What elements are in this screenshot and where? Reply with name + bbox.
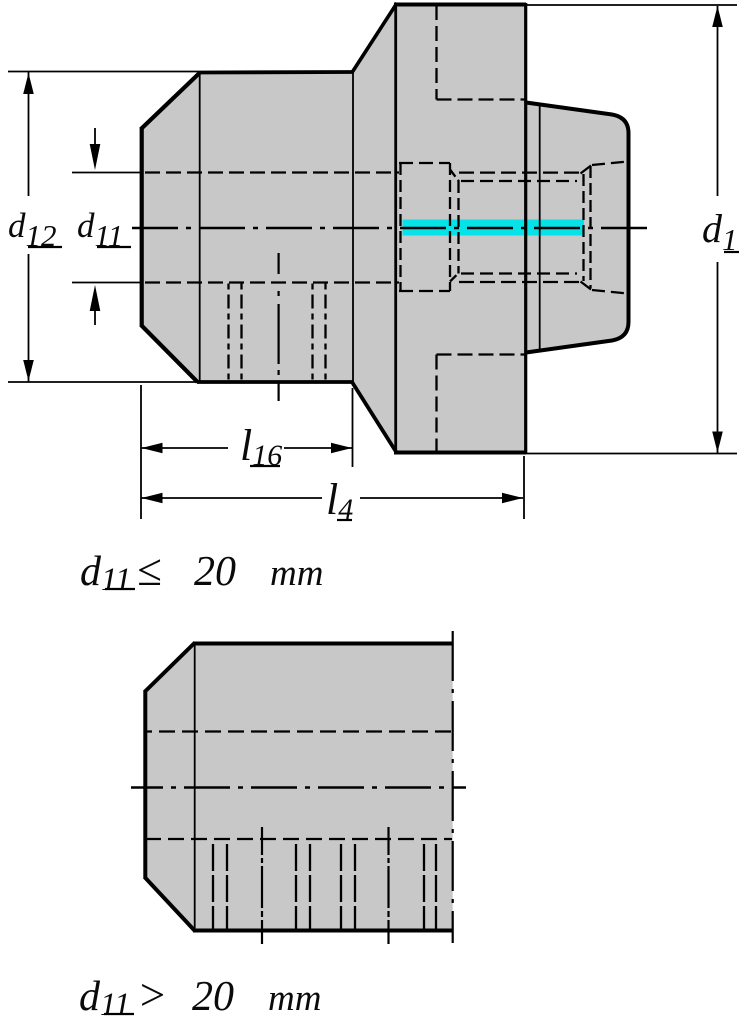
- hidden slot D left: [423, 844, 425, 930]
- hidden chamfer top left: [450, 170, 459, 182]
- adapter body lower view fill: [145, 643, 453, 931]
- outline flange bottom edge: [394, 451, 526, 455]
- slot centre mark vertical: [278, 253, 280, 401]
- hidden flange relief bottom vertical: [435, 355, 437, 453]
- hidden slot pair 1 left: [227, 284, 229, 382]
- cyan coolant bore highlight: [403, 220, 585, 236]
- dimension d11 extension bottom: [72, 282, 141, 284]
- dimension d12 extension top: [8, 71, 199, 73]
- arrow d12 top: [23, 73, 34, 94]
- hidden lead-in bottom: [592, 290, 628, 294]
- dimension d12 extension bottom: [8, 381, 197, 383]
- hidden chamfer bottom right: [581, 282, 592, 290]
- hidden slot pair 2 right: [324, 284, 326, 382]
- outline neck top edge: [199, 70, 353, 74]
- symmetry break line right: [452, 631, 454, 943]
- outline flange left edge: [394, 3, 397, 452]
- outline flange top edge: [394, 3, 526, 7]
- dimension l16 extension right: [352, 388, 354, 467]
- dimension d12 line upper: [28, 72, 30, 196]
- hidden thread end wall left: [582, 174, 584, 281]
- outline taper section top: [526, 103, 629, 353]
- outline neck bottom edge: [197, 380, 353, 384]
- hidden lead-in top: [592, 162, 628, 166]
- outline lower bottom edge: [193, 929, 453, 933]
- hidden flange relief top vertical: [435, 5, 437, 100]
- hidden slot C right: [354, 844, 356, 930]
- edge line lower chamfer transition: [194, 643, 196, 930]
- hidden line bore top neck: [145, 171, 399, 173]
- dimension d12 line lower: [28, 254, 30, 382]
- dimension d1 line upper: [717, 6, 719, 196]
- arrow d11 top: [94, 128, 96, 146]
- adapter body upper view fill: [142, 3, 629, 453]
- outline flange bottom chamfer: [352, 382, 397, 453]
- dimension d1 line lower: [717, 262, 719, 453]
- hidden thread crest bottom: [459, 281, 581, 283]
- outline flange top chamfer: [352, 3, 397, 73]
- svg-text:d1: d1: [702, 206, 738, 257]
- hidden line bore bottom neck: [145, 281, 399, 283]
- outline flange right edge: [524, 3, 527, 453]
- arrow l4 left: [142, 493, 163, 503]
- outline neck bottom-left chamfer: [142, 326, 198, 383]
- hidden thread end wall right: [589, 166, 591, 288]
- outline left edge: [140, 127, 144, 327]
- hidden line lower bore top: [145, 730, 452, 732]
- hidden thread root top: [461, 180, 577, 182]
- dimension l16 extension left: [140, 385, 142, 519]
- hidden thread crest top: [459, 171, 581, 173]
- arrow d11 bottom: [94, 309, 96, 325]
- hidden flange relief bottom horizontal: [437, 353, 526, 355]
- hidden slot D right: [435, 844, 437, 930]
- hidden slot B left: [295, 844, 297, 930]
- hidden chamfer top right: [581, 166, 592, 174]
- hidden chamfer bottom left: [450, 273, 459, 282]
- dimension l16 line right: [284, 447, 352, 449]
- centre line horizontal: [132, 227, 652, 229]
- hidden slot pair 2 left: [311, 284, 313, 382]
- hidden slot pair 1 right: [240, 284, 242, 382]
- dimension d11 extension top: [72, 172, 141, 174]
- edge line taper tangent: [539, 105, 541, 351]
- hidden slot A left: [212, 844, 214, 930]
- hidden slot A right: [226, 844, 228, 930]
- hidden line lower bore bottom: [145, 838, 452, 840]
- hidden slot B right: [309, 844, 311, 930]
- outline lower top edge: [193, 642, 453, 646]
- hidden slot C left: [340, 844, 342, 930]
- dimension l4 line left: [141, 497, 322, 499]
- dimension l4 extension right: [523, 456, 525, 519]
- hidden recess rect left: [399, 163, 401, 291]
- edge line neck transition: [199, 73, 201, 382]
- hidden flange relief top horizontal: [437, 98, 526, 100]
- hidden thread start wall: [457, 181, 459, 274]
- arrow d12 bottom: [23, 360, 34, 381]
- arrow d1 top: [712, 6, 723, 27]
- hidden recess rect right: [449, 163, 451, 291]
- arrow l16 right: [331, 443, 352, 453]
- dimension l4 line right: [360, 497, 523, 499]
- slot centre mark 2 lower: [387, 827, 389, 944]
- outline lower left edge: [143, 690, 147, 879]
- dimension l16 line left: [141, 447, 228, 449]
- dimension d1 extension bottom: [526, 453, 737, 455]
- slot centre mark 1 lower: [261, 827, 263, 944]
- arrow l4 right: [502, 493, 523, 503]
- centre line lower: [131, 786, 466, 788]
- dimension d1 extension top: [526, 4, 737, 6]
- hidden recess rect top: [399, 162, 450, 164]
- arrow d1 bottom: [712, 432, 723, 453]
- hidden recess rect bottom: [399, 290, 450, 292]
- outline neck top-left chamfer: [142, 73, 200, 129]
- svg-text:l16: l16: [240, 421, 282, 472]
- svg-text:l4: l4: [326, 475, 353, 526]
- arrow l16 left: [142, 443, 163, 453]
- edge line neck-flange transition: [352, 72, 354, 382]
- outline lower bottom-left chamfer: [145, 878, 195, 932]
- outline lower top-left chamfer: [145, 643, 195, 692]
- hidden thread root bottom: [461, 272, 577, 274]
